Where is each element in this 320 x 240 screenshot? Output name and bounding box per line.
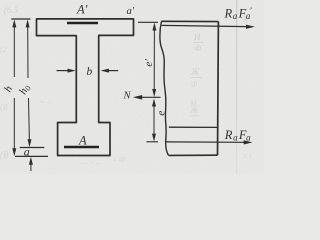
svg-text:≤ qp: ≤ qp — [113, 155, 126, 163]
e dimension line — [152, 99, 156, 142]
top tick for h/h0 — [11, 18, 30, 20]
b dimension arrow left — [57, 69, 76, 73]
paper background — [0, 0, 264, 174]
compression rebar A' — [67, 22, 98, 25]
svg-text:N: N — [123, 91, 132, 102]
b dimension arrow right — [101, 69, 119, 73]
svg-text:И: И — [193, 32, 201, 42]
I-section outline — [37, 19, 134, 156]
svg-text:b: b — [87, 66, 93, 78]
tick at a' level — [138, 21, 158, 23]
beam strip: bottom edge — [169, 154, 218, 156]
svg-text:A: A — [78, 134, 87, 148]
svg-text:a: a — [24, 145, 30, 159]
svg-text:R: R — [224, 128, 233, 142]
svg-text:Ф: Ф — [194, 43, 202, 53]
svg-text:a: a — [246, 133, 251, 143]
svg-text:R: R — [224, 6, 233, 20]
tick at h bottom (section bottom level) — [15, 155, 48, 157]
N force arrow — [133, 95, 161, 100]
h dimension line — [12, 19, 16, 156]
svg-text:(B: (B — [0, 150, 9, 160]
inner horizontal line (top of tension block) — [169, 126, 218, 128]
svg-text:(6.5: (6.5 — [4, 5, 19, 15]
svg-text:М: М — [189, 99, 198, 108]
svg-text:a: a — [233, 11, 238, 21]
a dimension arrow from below — [29, 157, 33, 171]
label R_a F_a' — [224, 6, 253, 21]
svg-text:Ж: Ж — [190, 67, 200, 77]
svg-text:Ф: Ф — [191, 80, 198, 89]
tick at h0 bottom (steel centroid level) — [20, 147, 45, 149]
beam strip: top edge — [161, 20, 218, 22]
label R_a F_a — [224, 128, 251, 143]
svg-text:— ≈ —: — ≈ — — [79, 158, 104, 167]
svg-text:a′: a′ — [127, 6, 135, 17]
e' dimension line — [152, 23, 156, 98]
beam strip: wavy torn left edge — [160, 21, 169, 155]
h0 dimension line — [26, 19, 32, 147]
tick at e bottom — [147, 141, 159, 143]
svg-text:≤ t: ≤ t — [243, 151, 252, 160]
svg-text:(2: (2 — [0, 45, 7, 54]
svg-text:≈ —: ≈ — — [40, 98, 53, 106]
tension rebar A — [64, 146, 99, 149]
faint bleed-through texts — [0, 5, 252, 167]
R_a F_a' line of action with arrow — [162, 25, 255, 29]
svg-text:a: a — [233, 133, 238, 143]
svg-text:A′: A′ — [76, 3, 88, 17]
R_a F_a line of action with arrow — [166, 140, 253, 144]
svg-text:(В: (В — [0, 103, 8, 112]
beam strip: right edge — [217, 22, 220, 156]
